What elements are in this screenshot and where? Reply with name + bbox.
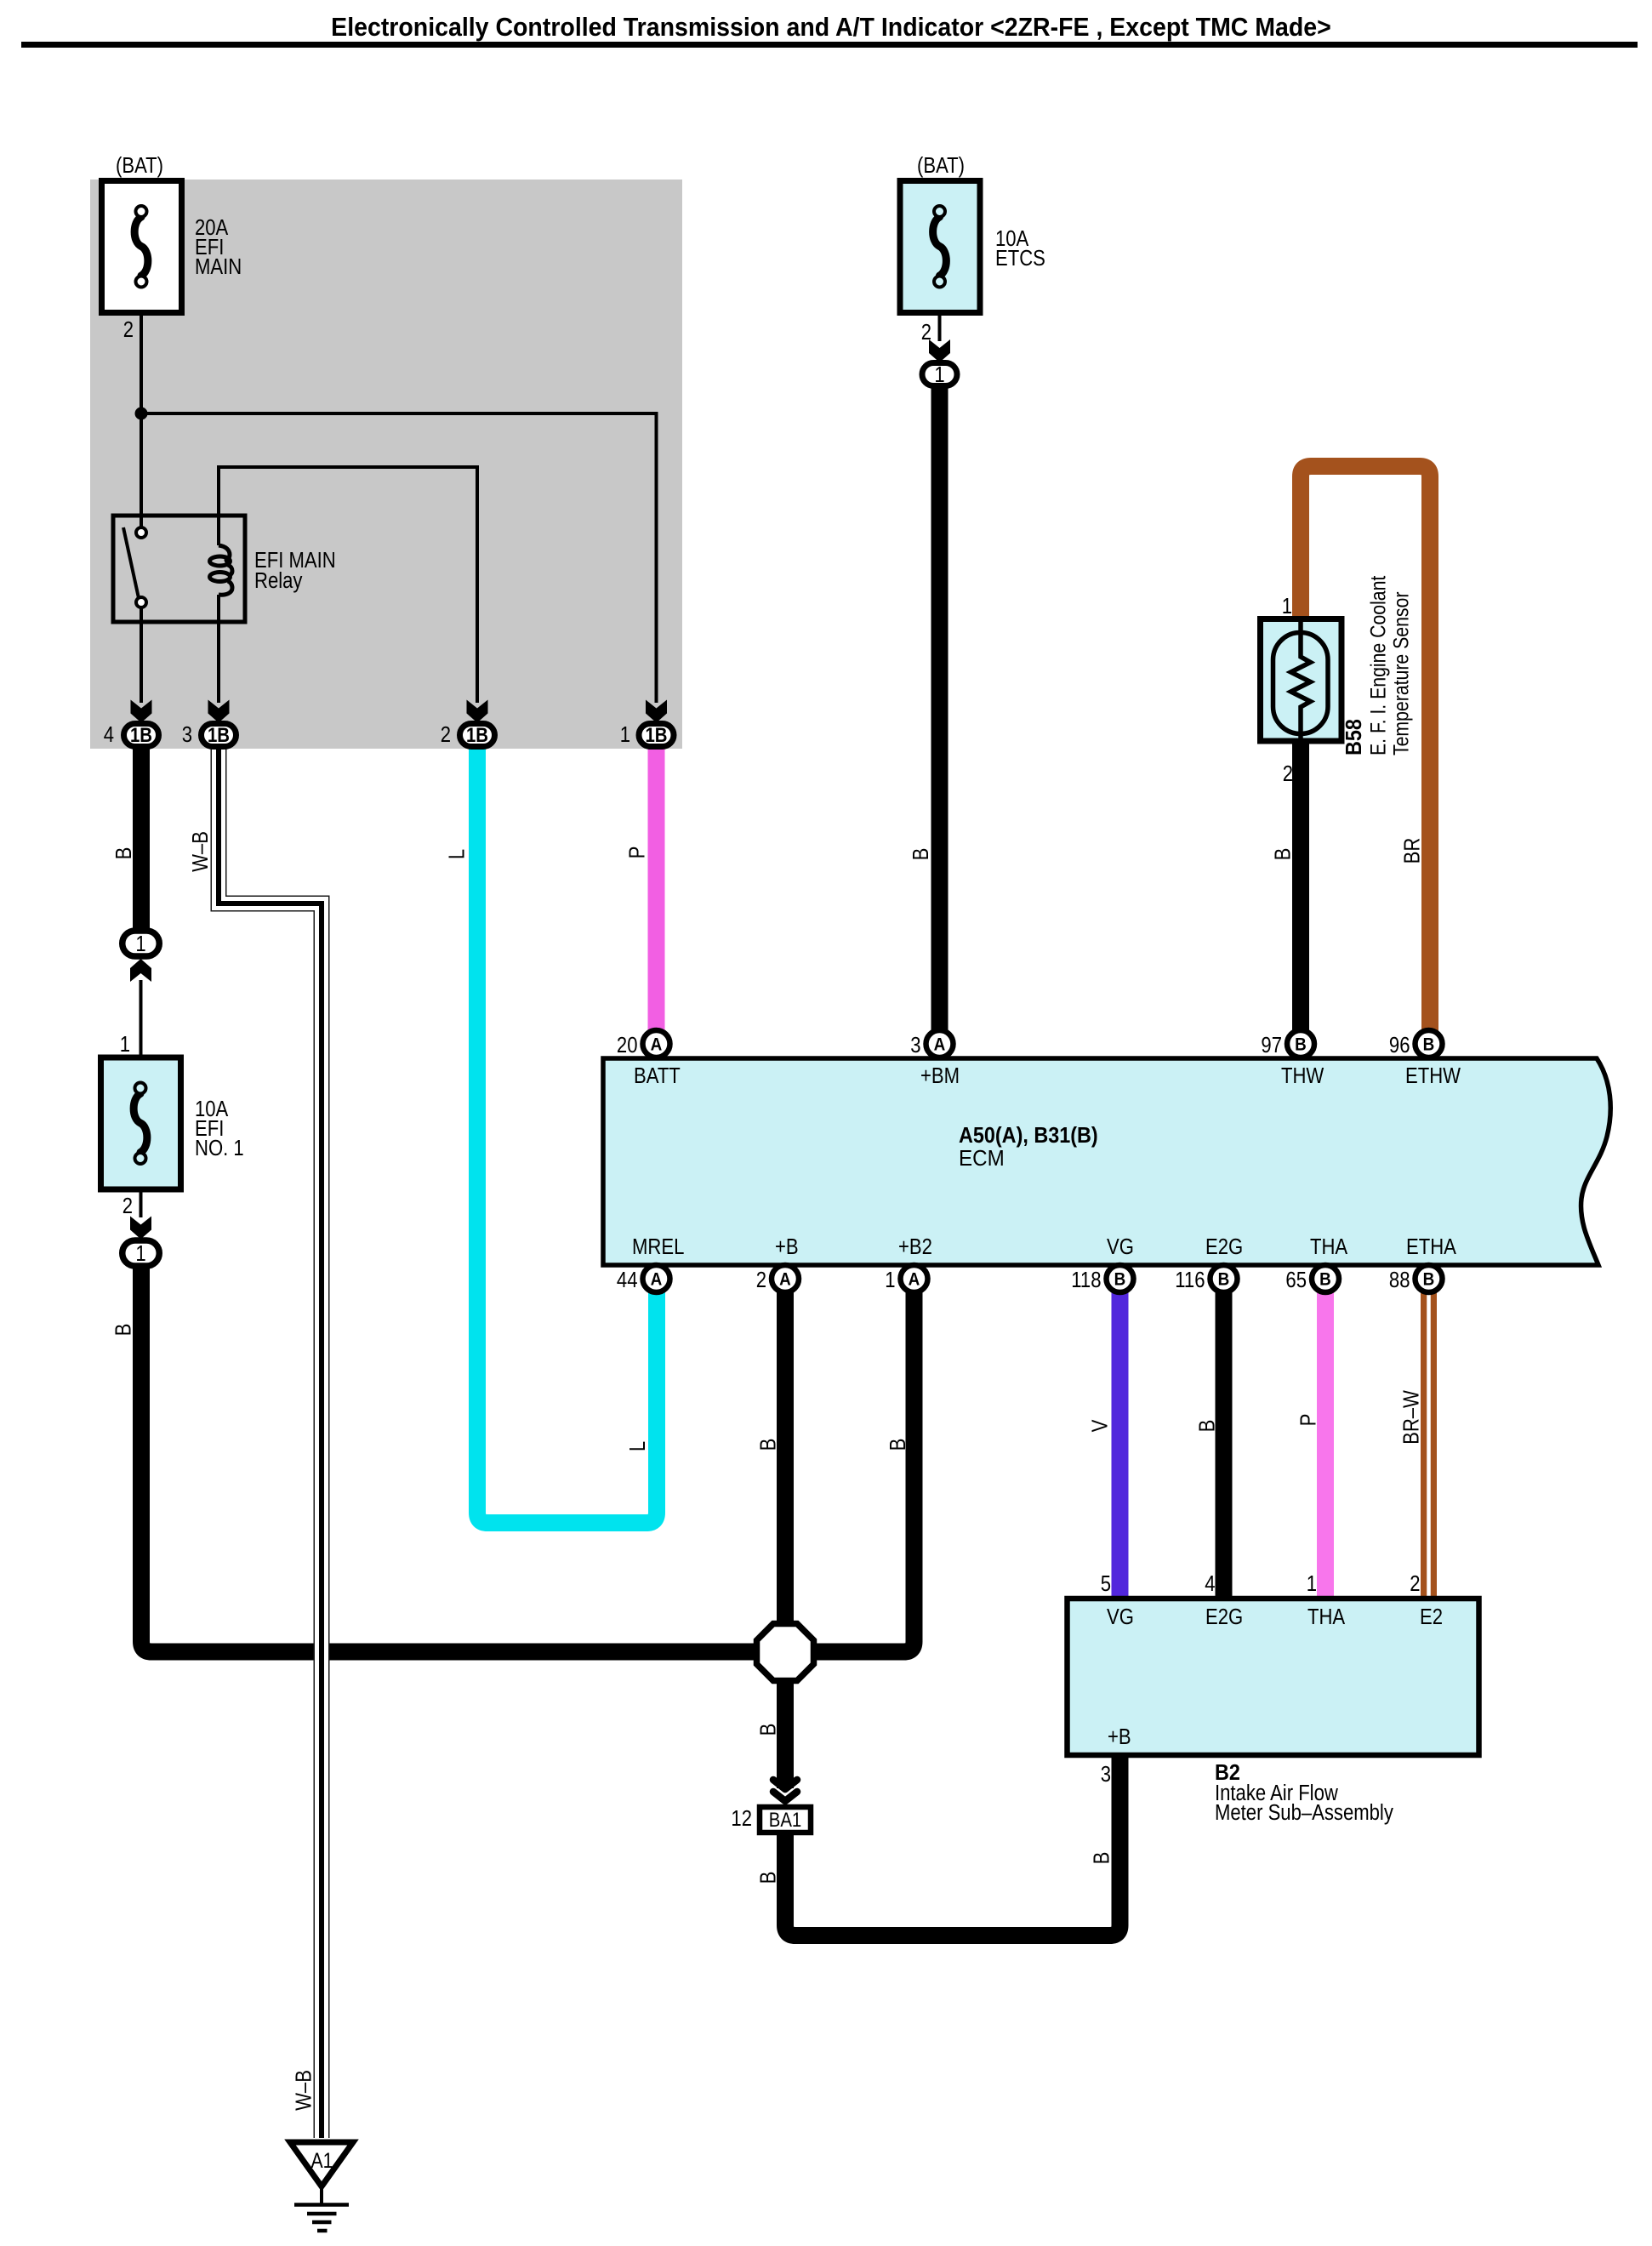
svg-text:A: A xyxy=(779,1270,791,1290)
svg-text:W–B: W–B xyxy=(292,2070,316,2111)
svg-text:P: P xyxy=(625,847,650,859)
svg-text:V: V xyxy=(1088,1420,1113,1433)
svg-text:B: B xyxy=(111,1324,136,1337)
svg-text:B: B xyxy=(1319,1270,1331,1290)
svg-text:+B: +B xyxy=(1108,1724,1131,1749)
svg-text:2: 2 xyxy=(1410,1571,1420,1596)
svg-text:MAIN: MAIN xyxy=(195,254,242,279)
svg-text:THA: THA xyxy=(1307,1605,1346,1629)
svg-text:BR: BR xyxy=(1400,838,1425,864)
svg-text:3: 3 xyxy=(910,1033,920,1057)
svg-text:B: B xyxy=(1271,848,1296,861)
svg-text:P: P xyxy=(1296,1414,1321,1427)
svg-text:2: 2 xyxy=(1283,761,1293,786)
svg-text:B: B xyxy=(886,1439,910,1451)
svg-text:B: B xyxy=(756,1439,781,1451)
svg-text:Relay: Relay xyxy=(254,568,302,593)
svg-text:ETCS: ETCS xyxy=(995,246,1045,271)
svg-text:5: 5 xyxy=(1101,1571,1111,1596)
svg-text:B: B xyxy=(1423,1270,1435,1290)
svg-text:A: A xyxy=(651,1035,663,1055)
svg-text:VG: VG xyxy=(1107,1234,1134,1259)
svg-text:W–B: W–B xyxy=(188,831,213,872)
svg-text:ECM: ECM xyxy=(959,1146,1005,1171)
svg-text:BA1: BA1 xyxy=(769,1808,802,1831)
svg-text:1B: 1B xyxy=(130,723,152,746)
svg-text:E2: E2 xyxy=(1420,1605,1443,1629)
svg-text:2: 2 xyxy=(441,722,451,747)
svg-text:(BAT): (BAT) xyxy=(116,153,163,178)
svg-text:B: B xyxy=(1295,1035,1307,1055)
svg-text:A: A xyxy=(909,1270,920,1290)
svg-text:1B: 1B xyxy=(208,723,230,746)
svg-text:+BM: +BM xyxy=(920,1063,960,1088)
svg-text:VG: VG xyxy=(1107,1605,1134,1629)
svg-text:12: 12 xyxy=(731,1806,752,1831)
svg-text:1B: 1B xyxy=(466,723,488,746)
svg-text:1: 1 xyxy=(1282,594,1292,619)
svg-text:L: L xyxy=(625,1441,650,1451)
svg-text:B: B xyxy=(1218,1270,1230,1290)
svg-text:4: 4 xyxy=(104,722,114,747)
svg-text:B58: B58 xyxy=(1342,719,1366,755)
svg-text:20: 20 xyxy=(617,1033,638,1057)
svg-text:B: B xyxy=(756,1724,781,1736)
svg-text:B: B xyxy=(909,848,933,861)
svg-text:BATT: BATT xyxy=(634,1063,681,1088)
svg-text:A1: A1 xyxy=(311,2148,333,2172)
svg-text:Electronically Controlled Tran: Electronically Controlled Transmission a… xyxy=(331,13,1331,42)
svg-text:THW: THW xyxy=(1281,1063,1324,1088)
svg-text:2: 2 xyxy=(122,1194,133,1218)
svg-text:B: B xyxy=(1090,1852,1114,1865)
svg-text:ETHW: ETHW xyxy=(1405,1063,1461,1088)
svg-text:E2G: E2G xyxy=(1205,1605,1243,1629)
svg-text:B: B xyxy=(1114,1270,1126,1290)
svg-text:ETHA: ETHA xyxy=(1406,1234,1457,1259)
svg-text:2: 2 xyxy=(921,320,931,345)
svg-text:B: B xyxy=(756,1872,781,1884)
svg-text:2: 2 xyxy=(123,317,134,342)
svg-text:A: A xyxy=(934,1035,946,1055)
svg-text:A: A xyxy=(651,1270,663,1290)
svg-text:1: 1 xyxy=(1307,1571,1317,1596)
svg-text:THA: THA xyxy=(1310,1234,1348,1259)
svg-text:116: 116 xyxy=(1175,1268,1205,1292)
svg-text:3: 3 xyxy=(182,722,192,747)
svg-text:E2G: E2G xyxy=(1205,1234,1243,1259)
svg-text:MREL: MREL xyxy=(632,1234,684,1259)
svg-text:1: 1 xyxy=(135,932,145,956)
svg-text:1: 1 xyxy=(620,722,630,747)
svg-text:1: 1 xyxy=(135,1241,145,1266)
svg-text:B: B xyxy=(1423,1035,1435,1055)
svg-text:44: 44 xyxy=(617,1268,638,1292)
svg-text:B: B xyxy=(111,847,136,860)
svg-text:+B: +B xyxy=(775,1234,799,1259)
svg-text:BR–W: BR–W xyxy=(1399,1390,1424,1445)
svg-text:1B: 1B xyxy=(645,723,667,746)
svg-text:NO. 1: NO. 1 xyxy=(195,1136,244,1160)
svg-text:+B2: +B2 xyxy=(898,1234,932,1259)
svg-text:65: 65 xyxy=(1285,1268,1307,1292)
svg-text:B: B xyxy=(1195,1420,1220,1433)
svg-text:3: 3 xyxy=(1101,1762,1111,1787)
svg-text:Temperature Sensor: Temperature Sensor xyxy=(1389,591,1413,755)
svg-text:96: 96 xyxy=(1389,1033,1410,1057)
svg-text:118: 118 xyxy=(1071,1268,1101,1292)
svg-text:L: L xyxy=(445,849,470,859)
svg-text:88: 88 xyxy=(1389,1268,1410,1292)
svg-text:E. F. I. Engine Coolant: E. F. I. Engine Coolant xyxy=(1366,575,1390,755)
svg-text:97: 97 xyxy=(1261,1033,1282,1057)
svg-text:1: 1 xyxy=(120,1032,130,1057)
svg-text:A50(A), B31(B): A50(A), B31(B) xyxy=(959,1124,1098,1148)
svg-text:Meter Sub–Assembly: Meter Sub–Assembly xyxy=(1215,1800,1393,1825)
svg-text:1: 1 xyxy=(885,1268,895,1292)
svg-text:4: 4 xyxy=(1205,1571,1215,1596)
svg-text:1: 1 xyxy=(934,362,944,387)
svg-text:2: 2 xyxy=(756,1268,766,1292)
svg-text:(BAT): (BAT) xyxy=(917,153,965,178)
